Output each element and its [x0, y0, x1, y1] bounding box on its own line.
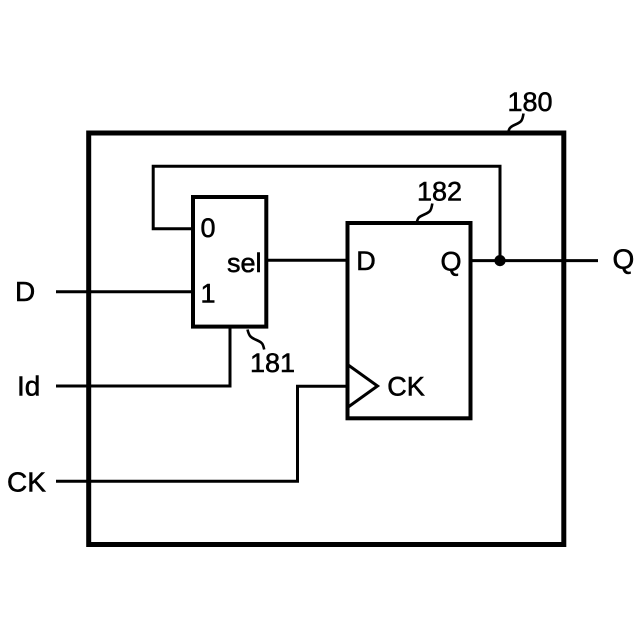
wire mux output to flip-flop D — [266, 259, 347, 262]
leader line for 181 — [248, 330, 265, 350]
leader line for 180 — [508, 114, 524, 135]
wire input CK to flip-flop clock — [56, 386, 348, 481]
svg-text:D: D — [15, 276, 35, 307]
leader line for 182 — [417, 204, 433, 224]
wire input D to mux input 1 — [56, 290, 193, 293]
node junction dot on Q net — [494, 255, 505, 266]
multiplexer 181 — [193, 197, 266, 327]
svg-text:sel: sel — [227, 248, 262, 278]
svg-text:Id: Id — [17, 371, 40, 402]
wire feedback from Q to mux input 0 — [153, 166, 500, 261]
svg-text:D: D — [356, 246, 376, 276]
block 180 (outer rectangle) — [89, 133, 564, 545]
wire flip-flop Q to output — [471, 259, 599, 262]
svg-text:CK: CK — [7, 467, 46, 498]
svg-text:0: 0 — [201, 213, 216, 243]
flip-flop 182 — [348, 223, 471, 418]
svg-text:CK: CK — [387, 372, 425, 402]
svg-text:180: 180 — [507, 87, 552, 117]
clock triangle on flip-flop — [348, 365, 378, 408]
svg-text:Q: Q — [441, 247, 462, 277]
wire input Id to mux select — [56, 327, 230, 386]
svg-text:1: 1 — [201, 279, 216, 309]
svg-text:Q: Q — [613, 244, 635, 275]
svg-text:181: 181 — [250, 348, 295, 378]
svg-text:182: 182 — [417, 177, 462, 207]
